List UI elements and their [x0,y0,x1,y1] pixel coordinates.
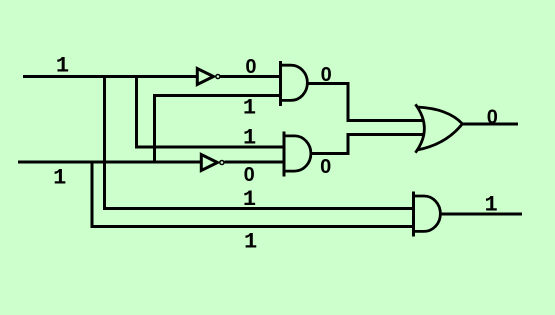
wire branch A down to AND2 top input [137,75,286,147]
gate AND1 body [281,65,308,100]
inverter NOT2 bubble [220,160,224,164]
wire branch A down to AND3 top input [105,75,414,209]
gate AND1 input bar [279,61,282,106]
gate AND3 input bar [412,192,415,237]
inverter NOT2 triangle [201,155,217,171]
wire branch B up to AND1 bottom input [155,96,282,164]
gate AND2 input bar [283,132,286,177]
svg-text:0: 0 [245,56,256,78]
wire input B horizontal [18,161,201,164]
gate OR1 bottom curve [417,124,462,150]
svg-text:1: 1 [484,193,497,218]
inverter NOT1 triangle [197,69,213,85]
inverter NOT1 bubble [216,74,220,78]
svg-text:1: 1 [243,126,256,151]
wire OR1 output [462,123,519,126]
svg-text:1: 1 [243,187,256,212]
gate AND2 body [284,136,311,171]
wire NOT1 output to AND1 top input [221,75,282,78]
wire AND2 output elbow to OR bottom input [310,135,424,154]
svg-text:1: 1 [56,53,69,78]
svg-text:0: 0 [487,107,498,129]
svg-text:1: 1 [53,166,66,191]
svg-text:0: 0 [244,164,255,186]
svg-text:1: 1 [243,95,256,120]
gate OR1 top curve [417,107,462,124]
svg-text:1: 1 [244,229,257,254]
svg-text:0: 0 [320,156,331,178]
wire branch B down to AND3 bottom input [92,161,414,227]
svg-text:0: 0 [321,64,332,86]
wire NOT2 output to AND2 bottom input [225,161,286,164]
wire input A horizontal [23,75,197,78]
wire AND3 output [441,213,523,216]
gate AND3 body [414,196,441,231]
gate OR1 left concave arc [415,104,424,152]
wire AND1 output elbow to OR top input [307,84,424,121]
